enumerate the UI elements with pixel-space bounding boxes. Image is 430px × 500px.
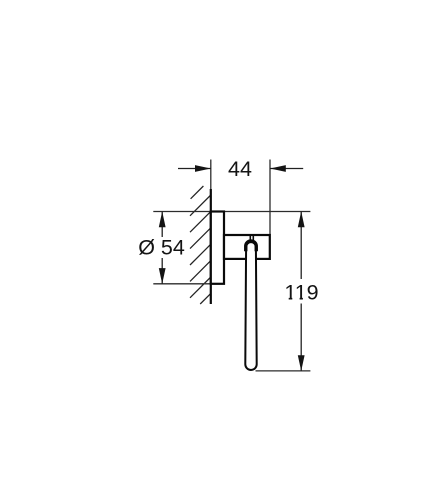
arrowhead 119 up [298, 211, 305, 227]
extension line top (plate top, dims Ø54 and 119) [153, 211, 310, 213]
extension line right (holder front, dim 44) [269, 160, 271, 236]
extension line left (wall face, dim 44) [210, 160, 212, 192]
arrowhead 44 right [270, 165, 286, 172]
ring cap (thick pivot sleeve at top of ring) [246, 241, 257, 251]
dimension line 119 lower segment [300, 304, 302, 371]
dimension line Ø54 lower segment [161, 258, 163, 284]
dimension line 44 right segment [270, 168, 303, 170]
dimension line 44 left segment [178, 168, 211, 170]
arrowhead 119 down [298, 355, 305, 371]
wall face line [210, 189, 212, 304]
holder housing (arm, side view) [224, 235, 270, 259]
pivot pin [249, 236, 251, 241]
ring rod (side view, white filled capsule, slight flare down) [245, 242, 256, 370]
dimension line Ø54 upper segment [161, 212, 163, 238]
wall plate (escutcheon, side view) [211, 212, 224, 284]
white patches to remove foot serifs of the two 1 digits (Helvetica style) [284, 296, 288, 300]
arrowhead 44 left [195, 165, 211, 172]
svg-text:Ø 54: Ø 54 [138, 236, 185, 260]
wall hatching [190, 186, 211, 304]
extension line bottom left (plate bottom, dim Ø54) [153, 283, 224, 285]
svg-text:119: 119 [284, 280, 318, 304]
dimension line 119 upper segment [300, 212, 302, 280]
extension line bottom right (ring bottom, dim 119) [256, 370, 311, 372]
arrowhead Ø54 down [159, 268, 166, 284]
svg-text:44: 44 [228, 157, 252, 181]
arrowhead Ø54 up [159, 211, 166, 227]
